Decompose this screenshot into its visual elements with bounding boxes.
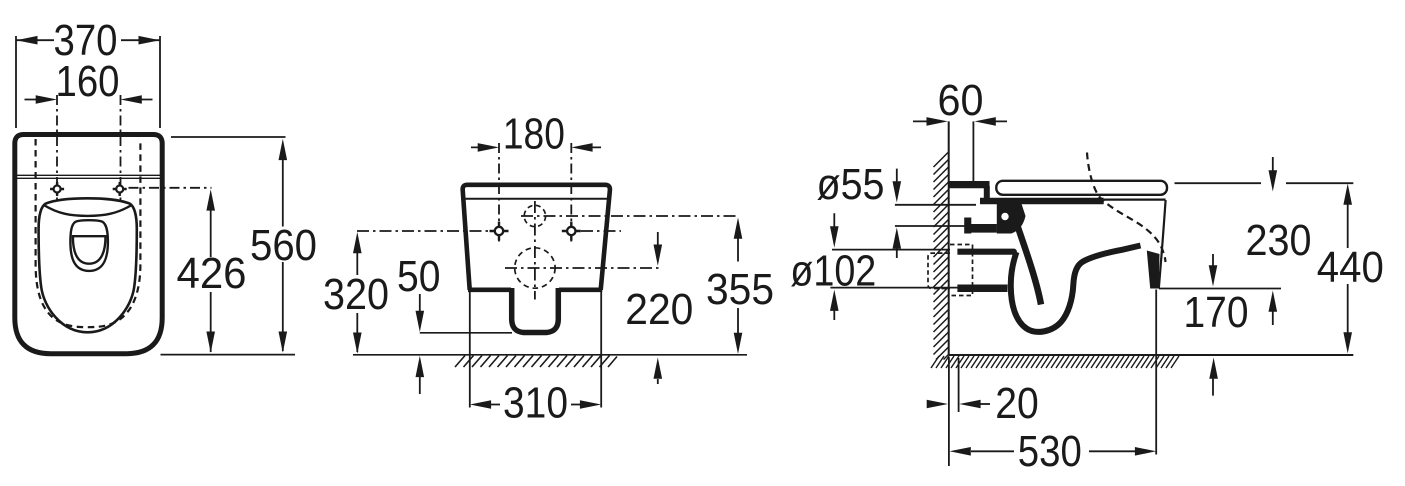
outlet bottom reference line (50)	[420, 332, 512, 334]
trap outline	[1011, 246, 1141, 332]
trap level reference line (170/230)	[1159, 288, 1281, 290]
dim 180	[471, 143, 601, 152]
extension line left (370)	[15, 36, 17, 128]
hidden outlet sleeve (dashed)	[950, 245, 973, 296]
svg-text:560: 560	[250, 221, 317, 270]
fixing holes axis line	[357, 230, 621, 232]
ø55 pipe top bar	[949, 181, 990, 188]
bowl front face	[1159, 200, 1166, 289]
svg-text:170: 170	[1184, 288, 1249, 337]
dim 530	[950, 447, 1157, 456]
mounting leg under pipe bar	[984, 186, 990, 204]
body outline (plan view)	[15, 135, 162, 354]
dim 220	[654, 232, 663, 384]
ø102 top reference line	[832, 249, 950, 251]
centre line left fixing hole	[56, 95, 58, 200]
dim 170	[1209, 254, 1218, 396]
bowl inner funnel	[1018, 226, 1042, 305]
right fixing hole (rear)	[562, 222, 581, 241]
dim 355	[734, 218, 743, 355]
vertical centre line (rear)	[534, 201, 536, 300]
baseline (560/426)	[161, 354, 296, 356]
step profile left	[964, 218, 971, 234]
floor hatching (rear view)	[455, 356, 617, 368]
outlet pipe top bar (bar3)	[957, 249, 1017, 255]
svg-text:426: 426	[177, 249, 247, 298]
svg-text:60: 60	[938, 76, 984, 125]
extension line right (310)	[600, 292, 602, 408]
bench bar (bar2)	[967, 224, 997, 233]
outlet pipe bottom bar (bar4)	[957, 285, 1007, 293]
ø102 axis line	[505, 267, 660, 269]
centre line right hole (rear)	[570, 143, 572, 242]
seat front wavy edge	[45, 206, 131, 216]
top band line	[464, 198, 609, 200]
extension line right (370)	[159, 36, 161, 128]
dim 560	[279, 139, 288, 353]
seat outline	[39, 198, 137, 332]
ø55 pipe bottom line	[895, 204, 976, 206]
dim 60	[913, 117, 1007, 126]
water surface	[73, 236, 106, 264]
body bottom edge	[468, 287, 602, 292]
svg-text:50: 50	[397, 252, 441, 301]
ø55 lower reference line	[895, 225, 965, 227]
tank rear double line	[17, 175, 160, 178]
extension line wall below floor	[948, 357, 950, 466]
dim 370	[16, 36, 160, 45]
dim 160	[25, 95, 153, 104]
extension line 60 right	[972, 121, 974, 182]
left fixing hole (rear)	[490, 222, 509, 241]
extension line 530 right	[1155, 290, 1157, 455]
hidden bowl rim (dashed U)	[36, 139, 141, 327]
svg-text:320: 320	[323, 270, 389, 319]
dim 310	[470, 400, 601, 409]
svg-text:530: 530	[1018, 427, 1082, 476]
svg-text:220: 220	[625, 285, 693, 334]
svg-text:180: 180	[503, 110, 565, 159]
dim ø55 arrows	[893, 169, 902, 258]
outlet spigot (rear)	[512, 288, 559, 333]
ø55 axis line	[521, 215, 740, 217]
centre line left hole (rear)	[498, 143, 500, 242]
svg-text:440: 440	[1317, 243, 1384, 292]
wall face line	[948, 121, 950, 355]
centre line right fixing hole	[120, 95, 122, 200]
extension line top (560)	[171, 136, 286, 138]
inlet hole ø55 (dashed circle)	[524, 205, 545, 226]
svg-text:355: 355	[706, 265, 774, 314]
hidden outlet pipe in wall (dashed)	[928, 253, 950, 288]
floor line (rear view)	[353, 354, 747, 356]
dim ø102 arrows	[830, 213, 839, 320]
svg-text:ø55: ø55	[817, 160, 885, 209]
seat level reference line	[1175, 182, 1354, 184]
rim band under seat	[980, 198, 1104, 204]
svg-text:160: 160	[56, 57, 120, 106]
dim 320	[353, 232, 362, 354]
centre line to 426 dim	[129, 187, 212, 189]
ø102 bottom reference line	[830, 287, 972, 289]
left fixing hole	[50, 182, 64, 196]
body outline (rear view)	[463, 185, 610, 290]
dim 20	[927, 400, 990, 409]
front bottom wedge	[1147, 251, 1160, 289]
extension line 20 right	[958, 358, 960, 412]
hinge circle	[1000, 212, 1010, 222]
floor hatching (side view)	[931, 356, 1179, 368]
floor line (side view)	[949, 354, 1354, 356]
outlet hole ø102 (dashed circle)	[515, 248, 555, 288]
hidden interior dashed curve	[1087, 153, 1166, 263]
bowl opening	[70, 220, 108, 271]
right fixing hole	[113, 182, 127, 196]
extension line left (310)	[469, 292, 471, 408]
hinge bracket blob	[997, 204, 1026, 234]
svg-text:20: 20	[995, 379, 1039, 428]
dim 440	[1343, 184, 1352, 354]
dim 50	[416, 294, 425, 394]
dim 230	[1269, 157, 1278, 325]
dim 426	[206, 189, 215, 352]
svg-text:230: 230	[1246, 216, 1312, 265]
seat profile	[996, 181, 1167, 195]
wall hatching	[934, 152, 949, 360]
rim front top line	[1104, 199, 1166, 201]
svg-text:310: 310	[503, 379, 568, 428]
